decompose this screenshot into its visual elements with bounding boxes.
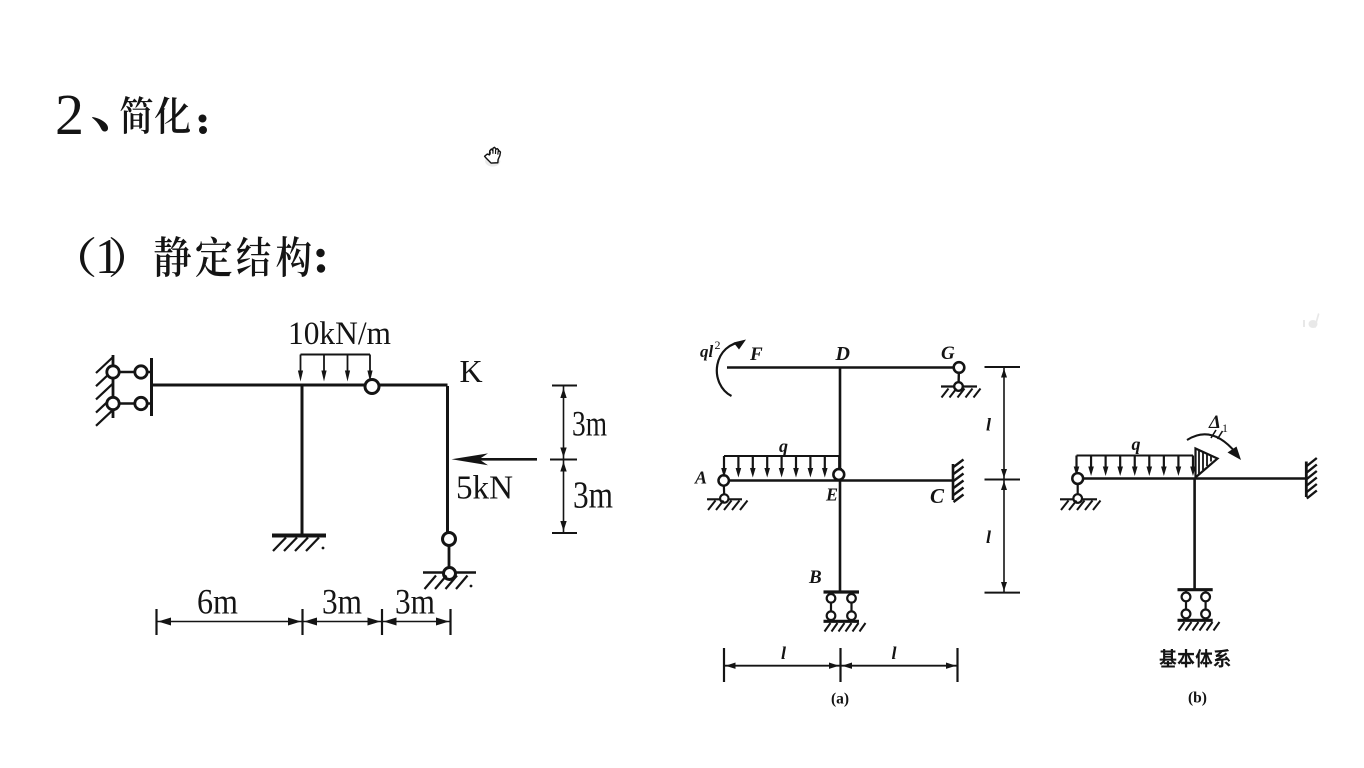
load arrow 1 xyxy=(300,355,302,373)
figure (a) moment arc ql2 xyxy=(717,343,742,397)
hinge circle at E xyxy=(833,469,844,480)
hinge at beam (circle) xyxy=(365,380,379,394)
fig-b load top line xyxy=(1077,455,1194,457)
subtitle colon dots xyxy=(316,249,324,257)
fig-b support left link xyxy=(1185,590,1187,620)
fig-b wall hatching xyxy=(1307,458,1317,499)
B circle top-right xyxy=(847,594,856,603)
A ground line xyxy=(707,498,742,500)
fig-a dim tick top xyxy=(985,366,1021,368)
svg-text:5kN: 5kN xyxy=(456,470,513,507)
fig-b circle top-right xyxy=(1201,593,1210,602)
left support end plate xyxy=(150,358,153,416)
fig-a dim tick bottom xyxy=(985,592,1021,594)
left support hinge bottom-left xyxy=(107,397,119,409)
fig-b left support link xyxy=(1077,479,1079,499)
hand cursor xyxy=(485,147,501,166)
subtitle char 静 xyxy=(155,236,191,277)
bottom dim tick 1 xyxy=(155,609,157,635)
B circle top-left xyxy=(827,594,836,603)
fig-a dim arrows xyxy=(1001,369,1007,378)
fig-b column xyxy=(1193,479,1196,591)
svg-text:ql: ql xyxy=(700,342,714,361)
vertical dimension line xyxy=(563,386,565,533)
load arrow 2 xyxy=(323,355,325,373)
svg-text:C: C xyxy=(930,484,945,508)
title char 简 xyxy=(120,96,152,134)
svg-text:6m: 6m xyxy=(197,582,238,622)
svg-text:E: E xyxy=(825,485,838,505)
fixed base hatching xyxy=(273,538,319,552)
middle beam A-E-C xyxy=(724,479,954,482)
title comma 、 xyxy=(92,117,108,131)
left support bottom link xyxy=(113,402,152,405)
fig-a bottom tick mid xyxy=(839,648,841,682)
subtitle paren （ xyxy=(80,237,95,277)
fig-a bottom dim line xyxy=(724,665,958,667)
fig-b load arrows xyxy=(1075,456,1077,469)
svg-text:3m: 3m xyxy=(572,404,607,444)
caption char 系 xyxy=(1214,649,1231,667)
fig-b circle bottom-left xyxy=(1182,610,1191,619)
svg-text:3m: 3m xyxy=(322,582,362,622)
fig-b circle bottom-right xyxy=(1201,610,1210,619)
B support bottom plate xyxy=(824,620,860,623)
dim tick top xyxy=(552,385,577,387)
dim arrows vertical xyxy=(560,388,566,398)
G hinge circle xyxy=(954,362,965,373)
caption char 本 xyxy=(1178,649,1195,667)
Delta1 arc arrow xyxy=(1187,434,1236,453)
distributed load top line xyxy=(301,354,371,356)
load arrow 3 xyxy=(347,355,349,373)
fig-a vertical dim line xyxy=(1003,367,1005,593)
top beam F-D-G xyxy=(727,366,955,368)
fig-a bottom tick left xyxy=(723,648,725,682)
svg-text:K: K xyxy=(460,353,483,389)
fig-b wall line xyxy=(1305,462,1308,498)
B support right link xyxy=(850,592,852,621)
A roller circle xyxy=(720,494,728,502)
roller ground line xyxy=(423,571,476,574)
bottom dimension line xyxy=(157,621,451,623)
svg-text:D: D xyxy=(835,343,850,365)
svg-text:l: l xyxy=(781,643,786,663)
fixed base ground line xyxy=(272,534,326,538)
roller circle xyxy=(444,568,456,580)
svg-text:(b): (b) xyxy=(1188,690,1207,707)
bottom dim tick 3 xyxy=(381,609,383,635)
B ground hatching xyxy=(825,623,866,632)
caption char 体 xyxy=(1195,649,1212,668)
fig-b left ground line xyxy=(1060,498,1097,500)
left support hinge top-right xyxy=(135,366,147,378)
subtitle char 构 xyxy=(276,236,311,277)
fig-b circle top-left xyxy=(1182,593,1191,602)
B support top plate xyxy=(824,590,860,593)
B circle bottom-right xyxy=(847,611,856,620)
svg-text:q: q xyxy=(779,436,788,456)
force arrow 5kN xyxy=(478,458,537,461)
bottom dim tick 4 xyxy=(449,609,451,635)
subtitle paren ） xyxy=(110,237,124,277)
G roller circle xyxy=(954,382,963,391)
B support left link xyxy=(830,592,832,621)
bottom dim arrows xyxy=(158,618,171,626)
B circle bottom-left xyxy=(827,611,836,620)
A hinge circle xyxy=(719,475,729,485)
svg-text:q: q xyxy=(1132,434,1141,454)
fig-b left ground hatching xyxy=(1061,501,1101,511)
A link xyxy=(723,481,726,499)
svg-text:1: 1 xyxy=(95,228,120,284)
fig-b support bottom plate xyxy=(1178,619,1213,622)
fig-b ground hatching xyxy=(1179,622,1220,631)
left support wall line xyxy=(112,355,115,418)
fig-b left hinge circle xyxy=(1072,473,1083,484)
svg-text:l: l xyxy=(986,415,991,435)
load arrow 4 xyxy=(369,355,371,373)
fig-a bottom dim arrows xyxy=(726,663,736,669)
svg-text:3m: 3m xyxy=(573,475,613,517)
faint smudge xyxy=(1303,313,1320,328)
dim tick middle xyxy=(550,459,577,461)
left support wall hatching xyxy=(96,358,113,426)
fig-a bottom tick right xyxy=(956,648,958,682)
G ground hatching xyxy=(942,389,981,398)
constraint triangle wedge xyxy=(1196,449,1218,478)
title colon dots xyxy=(199,115,207,123)
svg-text:10kN/m: 10kN/m xyxy=(288,316,391,352)
svg-text:2: 2 xyxy=(55,82,84,147)
G ground line xyxy=(941,385,977,387)
right column xyxy=(446,386,449,533)
fig-b support right link xyxy=(1204,590,1206,620)
svg-text:A: A xyxy=(694,468,707,488)
roller ground hatching xyxy=(425,576,468,590)
bottom dim tick 2 xyxy=(301,609,303,635)
subtitle char 定 xyxy=(196,236,232,276)
G roller link xyxy=(957,368,960,387)
link to roller xyxy=(448,533,451,570)
caption char 基 xyxy=(1159,649,1176,668)
fig-b support top plate xyxy=(1178,588,1213,591)
A ground hatching xyxy=(708,501,748,511)
left support hinge top-left xyxy=(107,366,119,378)
column D-E-B xyxy=(839,368,842,592)
svg-text:(a): (a) xyxy=(831,691,849,708)
middle column xyxy=(301,386,304,534)
svg-text:G: G xyxy=(941,343,955,364)
left support hinge bottom-right xyxy=(135,397,147,409)
svg-text:3m: 3m xyxy=(395,582,435,622)
fig-a dim tick mid xyxy=(985,479,1021,481)
C wall line xyxy=(952,464,955,500)
C wall hatching xyxy=(954,460,964,503)
subtitle char 结 xyxy=(237,237,270,277)
main beam xyxy=(152,384,448,387)
fig-b beam xyxy=(1078,477,1306,480)
title char 化 xyxy=(155,97,190,134)
svg-text:B: B xyxy=(808,567,822,588)
load q arrows xyxy=(723,456,725,470)
left support top link xyxy=(113,371,152,374)
svg-text:1: 1 xyxy=(1222,421,1228,435)
svg-text:l: l xyxy=(986,527,991,547)
load q top line xyxy=(724,455,839,457)
dim tick bottom xyxy=(552,532,577,534)
svg-text:2: 2 xyxy=(715,338,721,352)
lower hinge circle xyxy=(443,533,456,546)
fig-b left roller circle xyxy=(1073,494,1082,503)
svg-text:l: l xyxy=(892,643,897,663)
svg-text:F: F xyxy=(749,344,763,365)
svg-text:Δ: Δ xyxy=(1208,412,1221,433)
